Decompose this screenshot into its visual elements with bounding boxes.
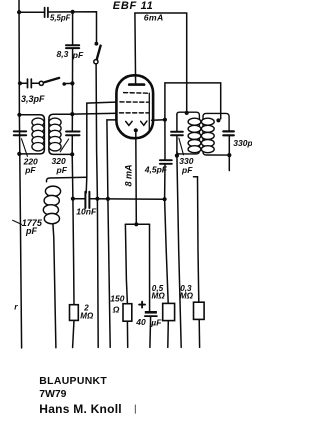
capacitor 40uF electrolytic: [145, 311, 157, 314]
pointer 330pF: [179, 138, 184, 155]
svg-text:EBF 11: EBF 11: [113, 0, 154, 12]
wire 8,3pF drop: [72, 12, 74, 44]
svg-text:µF: µF: [150, 318, 162, 328]
diode plate left: [126, 121, 132, 125]
resistor 0,5M lead bottom: [167, 321, 170, 348]
grid 2 dashed: [120, 101, 149, 103]
svg-text:pF: pF: [72, 50, 84, 60]
wire 330pF left line: [176, 114, 178, 131]
capacitor 5,5pF: [45, 8, 48, 18]
svg-text:r: r: [14, 302, 18, 312]
svg-text:pF: pF: [24, 165, 36, 175]
wire coil L2 frame: [49, 114, 72, 154]
svg-text:150: 150: [110, 294, 124, 304]
switch S1 contact dot: [95, 42, 99, 46]
node bus x97: [95, 197, 99, 201]
svg-text:Hans M. Knoll: Hans M. Knoll: [39, 402, 122, 416]
node right tank bottom: [227, 153, 231, 157]
wire switch S2 to junction: [64, 82, 73, 84]
switch S1 pivot: [94, 60, 98, 64]
wire switch S1 down: [96, 64, 98, 348]
tube EBF11 envelope: [116, 75, 153, 138]
plus sign: [139, 302, 145, 308]
grid 3 dashed: [120, 112, 149, 114]
capacitor 320pF trimmer: [66, 132, 79, 136]
node 10nF left: [71, 197, 75, 201]
resistor 150Ω: [123, 304, 132, 322]
node tank2 top: [70, 112, 74, 116]
wire 10nF bus left: [73, 198, 84, 200]
capacitor 8,3pF: [66, 45, 79, 48]
node 330pF bottom: [175, 154, 179, 158]
wire to electrolytic: [149, 224, 151, 311]
svg-text:3,3pF: 3,3pF: [21, 94, 45, 104]
node tank1 top: [17, 113, 21, 117]
wire below 4,5pF: [164, 165, 166, 200]
node switch row left: [18, 81, 22, 85]
wire anode top rect: [135, 13, 187, 113]
svg-text:7W79: 7W79: [39, 389, 66, 400]
capacitor 10nF: [85, 192, 89, 208]
wire to switch S2 pivot: [32, 82, 39, 84]
resistor 2MΩ: [70, 305, 79, 321]
wire diode left lead: [107, 120, 118, 348]
wire to 150 ohm: [125, 224, 127, 303]
mark separator bar: [134, 405, 136, 414]
svg-text:pF: pF: [56, 165, 68, 175]
grid 1 dashed: [124, 92, 149, 95]
svg-text:pF: pF: [181, 165, 193, 175]
coil L5 frame: [203, 113, 229, 155]
svg-text:40: 40: [135, 317, 146, 327]
diode plate right: [141, 121, 147, 125]
svg-text:6mA: 6mA: [144, 12, 164, 22]
capacitor 4,5pF: [160, 160, 172, 164]
svg-text:MΩ: MΩ: [180, 291, 194, 300]
switch S2 contact dot: [62, 82, 66, 86]
wire 4,5pF drop: [164, 120, 166, 160]
resistor 150 lead bottom: [126, 321, 128, 347]
svg-text:5,5pF: 5,5pF: [50, 13, 71, 22]
switch S2 pivot: [39, 81, 43, 85]
cathode node: [134, 128, 138, 132]
wire cathode down: [135, 132, 138, 224]
wire tank2 down to 10nF node: [71, 154, 74, 198]
node on 8,3pF line: [70, 81, 74, 85]
capacitor 3,3pF: [28, 79, 32, 88]
svg-text:MΩ: MΩ: [80, 312, 94, 321]
wire stub below right tank: [228, 155, 230, 170]
switch S1 lever: [97, 46, 101, 60]
svg-text:8,3: 8,3: [57, 49, 69, 59]
pointer 220pF: [22, 139, 28, 157]
capacitor 220pF trimmer: [14, 131, 26, 135]
svg-text:BLAUPUNKT: BLAUPUNKT: [39, 376, 107, 387]
capacitor 330pF: [171, 132, 183, 136]
wire top bus: [19, 11, 44, 13]
node screen feed: [185, 111, 189, 115]
wire up and top bus right: [165, 83, 221, 120]
anode feed wire: [134, 13, 137, 83]
svg-text:4,5pF: 4,5pF: [144, 165, 168, 175]
wire drop to 10nF left plate: [85, 177, 88, 193]
wire 10nF bus right: [90, 198, 164, 201]
wire 330pF line down: [177, 156, 181, 348]
wire coil L3 top: [46, 177, 86, 182]
svg-text:MΩ: MΩ: [152, 291, 166, 300]
svg-text:pF: pF: [25, 226, 37, 236]
coil L4 frame: [177, 112, 200, 154]
node tank2 bottom: [70, 152, 74, 156]
wire tube right exit: [152, 119, 165, 122]
coil L4 loops: [188, 118, 201, 153]
node right exit: [163, 118, 167, 122]
node tank1 bottom: [17, 152, 21, 156]
wire 8,3pF line down to switch row: [71, 49, 73, 114]
wire 8,3pF line to 2M resistor: [73, 199, 74, 305]
wire coil L1 frame: [19, 115, 44, 154]
coil L1 loops: [32, 118, 44, 151]
tube internal right lead: [148, 93, 150, 130]
node top-left junction: [17, 10, 21, 14]
wire switch row left: [20, 82, 27, 84]
node top bus junction: [71, 10, 75, 14]
wire tank2 below cap: [71, 136, 73, 155]
svg-text:Ω: Ω: [112, 305, 120, 315]
pointer 320pF: [60, 139, 68, 152]
coil L2 loops: [49, 118, 61, 151]
resistor 0,3M lead bottom: [198, 319, 200, 347]
coil L3 oscillator: [43, 186, 60, 224]
anode plate: [129, 83, 144, 86]
svg-text:330p: 330p: [233, 138, 252, 148]
wire grid3 bus: [72, 112, 118, 115]
node bus right end: [163, 197, 167, 201]
switch S2 lever: [45, 78, 60, 82]
node coil tap: [216, 118, 220, 122]
resistor 2M lead bottom: [73, 320, 74, 347]
capacitor 330pF right: [223, 131, 234, 135]
wire tank2 vertical: [71, 114, 73, 131]
resistor 0,5MΩ: [163, 303, 175, 320]
svg-text:8 mA: 8 mA: [124, 164, 134, 186]
wire to 0,5M resistor: [165, 199, 169, 303]
pointer 1775pF: [13, 220, 22, 224]
wire diode det line: [194, 177, 199, 303]
svg-text:10nF: 10nF: [76, 207, 97, 217]
node cathode T: [134, 222, 138, 226]
wire grid2 bus: [87, 102, 119, 177]
wire coil L3 bottom lead: [53, 224, 56, 348]
coil L5 loops: [201, 118, 214, 153]
node bus x108: [106, 197, 110, 201]
resistor 0,3MΩ: [194, 302, 205, 319]
wire left main vertical: [19, 0, 22, 348]
wire cathode T bar: [125, 223, 149, 225]
